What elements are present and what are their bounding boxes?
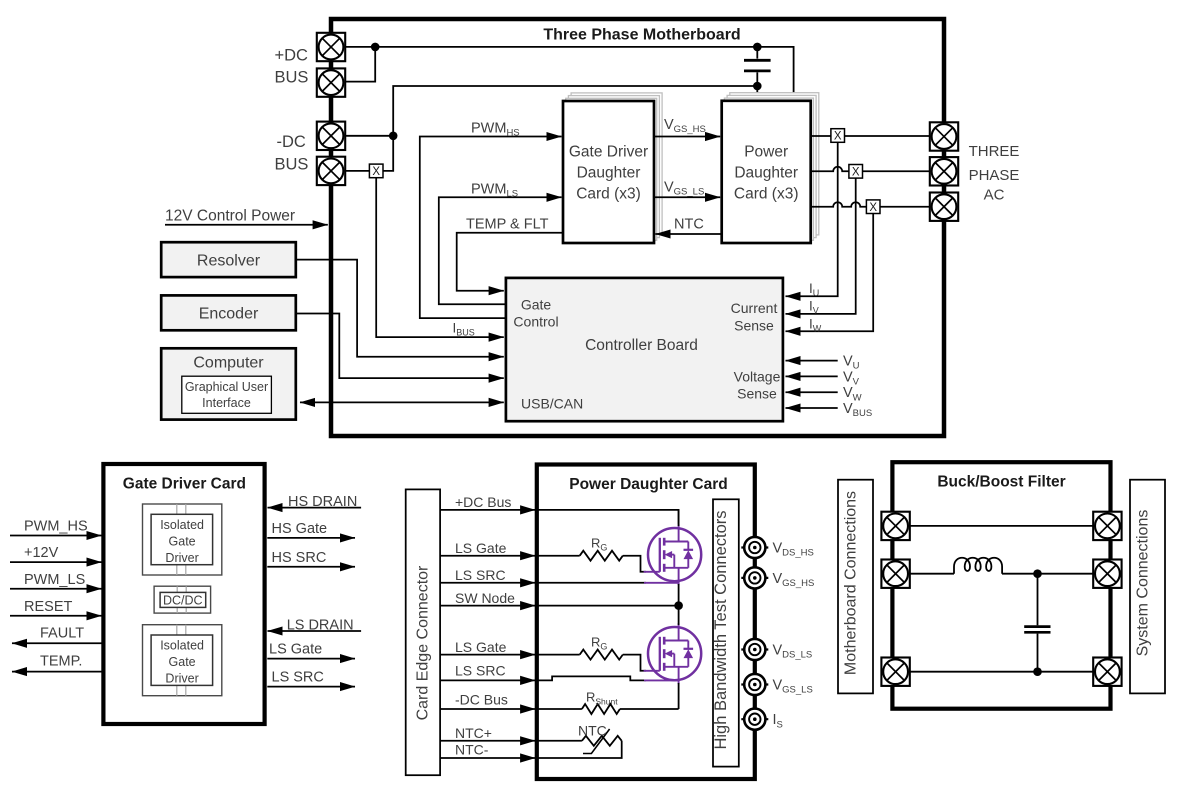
svg-text:Gate: Gate bbox=[521, 297, 552, 313]
svg-text:DC/DC: DC/DC bbox=[163, 593, 203, 607]
svg-text:Three Phase Motherboard: Three Phase Motherboard bbox=[543, 27, 740, 44]
svg-text:Encoder: Encoder bbox=[199, 306, 259, 323]
svg-text:HS Gate: HS Gate bbox=[272, 521, 328, 537]
svg-text:Controller Board: Controller Board bbox=[585, 337, 698, 354]
X box phase V bbox=[849, 165, 863, 179]
buck/boost filter box bbox=[892, 462, 1110, 709]
isolated gate driver LS U-IGD2 bbox=[143, 625, 222, 696]
svg-text:High Bandwidth Test Connectors: High Bandwidth Test Connectors bbox=[712, 510, 730, 749]
svg-text:Voltage: Voltage bbox=[734, 369, 781, 385]
thermistor NTC bbox=[537, 740, 582, 742]
svg-text:Buck/Boost Filter: Buck/Boost Filter bbox=[937, 474, 1065, 491]
resistor R_Shunt bbox=[537, 708, 582, 710]
test point V_GS_HS bbox=[741, 567, 768, 588]
svg-text:SW Node: SW Node bbox=[455, 590, 515, 606]
svg-text:Isolated: Isolated bbox=[160, 639, 204, 653]
svg-text:BUS: BUS bbox=[275, 156, 309, 174]
svg-text:Gate Driver: Gate Driver bbox=[569, 144, 648, 161]
svg-text:Daughter: Daughter bbox=[577, 165, 641, 182]
test point V_DS_HS bbox=[741, 537, 768, 558]
NTC strike line bbox=[583, 729, 610, 754]
svg-text:NTC: NTC bbox=[674, 217, 704, 233]
wire USB/CAN computer to controller bbox=[300, 401, 504, 403]
junction dot +DC at capacitor bbox=[753, 43, 762, 52]
X box phase U bbox=[831, 129, 845, 143]
terminal -DC BUS 2 bbox=[317, 157, 345, 185]
terminal +DC BUS 1 bbox=[317, 33, 345, 61]
svg-text:Gate: Gate bbox=[169, 534, 196, 548]
svg-text:Card (x3): Card (x3) bbox=[576, 186, 641, 203]
wire PWM_LS controller to gate driver card bbox=[439, 197, 562, 304]
svg-text:FAULT: FAULT bbox=[40, 626, 84, 642]
terminal +DC BUS 2 bbox=[317, 68, 345, 96]
junction dot +DC at terminal branch bbox=[371, 43, 380, 52]
svg-text:Gate: Gate bbox=[169, 655, 196, 669]
svg-text:Card (x3): Card (x3) bbox=[734, 186, 799, 203]
svg-text:12V Control Power: 12V Control Power bbox=[165, 208, 295, 225]
wire HS source to SW dot bbox=[678, 584, 680, 606]
power daughter card stack bbox=[730, 93, 819, 235]
wire LS drain from SW dot bbox=[678, 606, 680, 625]
svg-text:Computer: Computer bbox=[193, 355, 264, 372]
wire LS source down bbox=[678, 683, 680, 709]
svg-text:NTC+: NTC+ bbox=[455, 725, 492, 741]
filter terminal left 3 bbox=[881, 658, 909, 686]
wire LS SRC high side bbox=[537, 582, 646, 584]
test point V_GS_LS bbox=[741, 674, 768, 695]
svg-text:Graphical User: Graphical User bbox=[185, 380, 268, 394]
test point I_S bbox=[741, 709, 768, 730]
wire -DC rail bbox=[393, 86, 757, 136]
svg-text:RESET: RESET bbox=[24, 599, 72, 615]
junction dot mid bbox=[1033, 569, 1042, 578]
wire +DC BUS terminal2 stub bbox=[345, 47, 375, 82]
voltage sense stub V_V bbox=[786, 375, 838, 377]
svg-text:LS Gate: LS Gate bbox=[455, 540, 507, 556]
wire I_BUS from X box to controller bbox=[376, 178, 504, 337]
filter mid wire with inductor bbox=[910, 573, 954, 575]
svg-text:+DC: +DC bbox=[275, 47, 309, 65]
wire -DC BUS terminal4 stub to X box bbox=[345, 170, 369, 172]
gate driver card box bbox=[103, 464, 264, 724]
voltage sense stub V_BUS bbox=[786, 407, 838, 409]
AC phase wire W with hops bbox=[811, 202, 867, 206]
svg-text:LS SRC: LS SRC bbox=[455, 663, 506, 679]
MOSFET Q-LS bbox=[644, 623, 702, 684]
svg-text:TEMP.: TEMP. bbox=[40, 654, 82, 670]
svg-text:Isolated: Isolated bbox=[160, 518, 204, 532]
wire X box to -DC junction bbox=[383, 136, 393, 171]
wire resolver to controller bbox=[296, 260, 504, 357]
junction dot SW node bbox=[674, 601, 683, 610]
inductor L1 bbox=[954, 558, 1002, 574]
terminal AC W bbox=[930, 193, 958, 221]
encoder box bbox=[161, 295, 296, 330]
wire encoder to controller bbox=[296, 314, 504, 379]
isolated gate driver HS U-IGD1 bbox=[143, 504, 222, 575]
current sense wire I_U bbox=[786, 142, 838, 296]
AC phase wire V with hop bbox=[811, 167, 850, 171]
X box DC bus bbox=[369, 164, 383, 178]
motherboard connections box bbox=[838, 480, 873, 694]
capacitor C-DC link bbox=[756, 47, 758, 59]
terminal AC V bbox=[930, 157, 958, 185]
filter terminal left 2 bbox=[881, 560, 909, 588]
test point V_DS_LS bbox=[741, 639, 768, 660]
svg-text:PHASE: PHASE bbox=[969, 167, 1020, 184]
capacitor C-filter bbox=[1037, 574, 1039, 626]
filter terminal left 1 bbox=[881, 512, 909, 540]
svg-text:PWM_HS: PWM_HS bbox=[24, 519, 88, 535]
svg-text:+12V: +12V bbox=[24, 545, 59, 561]
svg-text:LS SRC: LS SRC bbox=[455, 567, 506, 583]
resistor R_G high side bbox=[537, 555, 580, 557]
resistor R_G low side bbox=[537, 654, 580, 656]
svg-text:System Connections: System Connections bbox=[1135, 510, 1152, 657]
current sense wire I_W bbox=[786, 213, 874, 331]
wire -DC cap to power card top bbox=[756, 86, 758, 101]
resolver box bbox=[161, 242, 296, 277]
power daughter card U-PD bbox=[722, 101, 811, 243]
filter top wire bbox=[910, 525, 1093, 527]
graphical user interface box bbox=[182, 376, 272, 413]
wire V_GS_HS gate card to power card bbox=[654, 136, 720, 138]
DC/DC converter block bbox=[154, 586, 211, 613]
svg-text:Current: Current bbox=[731, 300, 778, 316]
junction dot -DC branch bbox=[389, 132, 398, 141]
svg-text:HS SRC: HS SRC bbox=[272, 550, 327, 566]
wire NTC return bbox=[537, 741, 622, 758]
high bandwidth test connectors box bbox=[713, 499, 739, 766]
svg-text:Power Daughter Card: Power Daughter Card bbox=[569, 476, 727, 493]
gate driver daughter card stack bbox=[571, 93, 662, 235]
terminal AC U bbox=[930, 122, 958, 150]
svg-text:Interface: Interface bbox=[202, 396, 251, 410]
svg-text:-DC Bus: -DC Bus bbox=[455, 692, 508, 708]
wire SW node inside bbox=[537, 605, 679, 607]
filter terminal right 1 bbox=[1093, 512, 1121, 540]
svg-text:AC: AC bbox=[984, 187, 1005, 204]
wire TEMP & FLT gate driver card to controller bbox=[457, 233, 564, 291]
computer box bbox=[161, 348, 296, 419]
motherboard outer box bbox=[331, 19, 944, 436]
svg-text:Power: Power bbox=[744, 144, 788, 161]
gate driver daughter card U-GD bbox=[563, 101, 654, 243]
svg-text:TEMP & FLT: TEMP & FLT bbox=[466, 217, 549, 233]
svg-text:Gate Driver Card: Gate Driver Card bbox=[123, 476, 246, 493]
wire LS SRC low side with jog bbox=[537, 676, 646, 680]
svg-text:Sense: Sense bbox=[734, 318, 774, 334]
X box phase W bbox=[866, 200, 880, 214]
voltage sense stub V_U bbox=[786, 360, 838, 362]
svg-text:LS SRC: LS SRC bbox=[272, 670, 324, 686]
junction dot bottom bbox=[1033, 667, 1042, 676]
filter terminal right 2 bbox=[1093, 560, 1121, 588]
system connections box bbox=[1130, 480, 1165, 694]
svg-text:USB/CAN: USB/CAN bbox=[521, 396, 583, 412]
terminal -DC BUS 1 bbox=[317, 122, 345, 150]
svg-text:Card Edge Connector: Card Edge Connector bbox=[415, 565, 432, 720]
wire NTC power card to gate card bbox=[656, 233, 722, 235]
svg-text:Motherboard Connections: Motherboard Connections bbox=[843, 491, 860, 675]
card edge connector box bbox=[406, 489, 440, 775]
wire -DC BUS terminal3 stub bbox=[345, 135, 393, 137]
svg-text:PWM_LS: PWM_LS bbox=[24, 572, 85, 588]
svg-text:Resolver: Resolver bbox=[197, 253, 261, 270]
svg-text:Driver: Driver bbox=[165, 672, 198, 686]
svg-text:Daughter: Daughter bbox=[734, 165, 798, 182]
AC phase wire U bbox=[811, 135, 832, 137]
wire gate lead low side bbox=[623, 655, 646, 671]
junction dot -DC at capacitor bbox=[753, 82, 762, 91]
svg-text:THREE: THREE bbox=[969, 143, 1020, 160]
wire HS drain link bbox=[678, 510, 680, 526]
MOSFET Q-HS bbox=[644, 524, 702, 585]
svg-text:LS Gate: LS Gate bbox=[269, 642, 322, 658]
power daughter card box bbox=[537, 465, 755, 780]
svg-text:BUS: BUS bbox=[275, 69, 309, 87]
wire +DC bus inside card bbox=[537, 510, 679, 524]
filter bottom wire bbox=[910, 671, 1093, 673]
wire 12V control power bbox=[165, 224, 328, 226]
svg-text:NTC-: NTC- bbox=[455, 742, 489, 758]
svg-text:NTC: NTC bbox=[578, 723, 607, 739]
filter terminal right 3 bbox=[1093, 658, 1121, 686]
svg-text:-DC: -DC bbox=[277, 133, 306, 151]
svg-text:Driver: Driver bbox=[165, 551, 198, 565]
wire PWM_HS controller to gate driver card bbox=[420, 137, 562, 319]
voltage sense stub V_W bbox=[786, 391, 838, 393]
svg-text:LS Gate: LS Gate bbox=[455, 639, 507, 655]
svg-text:Sense: Sense bbox=[737, 386, 777, 402]
wire V_GS_LS gate card to power card bbox=[654, 196, 720, 198]
wire gate lead high side bbox=[623, 556, 646, 572]
wire +DC rail bbox=[345, 47, 794, 101]
current sense wire I_V bbox=[786, 178, 856, 314]
controller board U-CB bbox=[506, 278, 783, 421]
svg-text:Control: Control bbox=[513, 314, 558, 330]
svg-text:+DC Bus: +DC Bus bbox=[455, 494, 511, 510]
